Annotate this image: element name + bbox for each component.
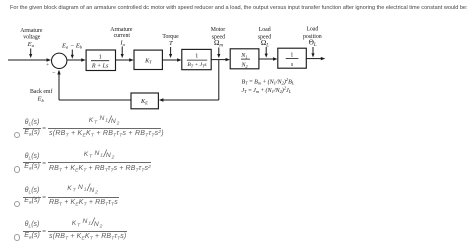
svg-text:JT = Jm + (N1/N2)2JL: JT = Jm + (N1/N2)2JL [242,86,292,95]
svg-text:Load: Load [259,27,271,33]
arrow Wm label [218,48,220,56]
svg-text:N1: N1 [240,53,247,59]
svg-text:−: − [52,71,56,77]
option 4 [14,234,20,240]
feedback wire horizontal left [59,99,131,101]
arrow Ea-Eb label [71,50,73,55]
arrowhead Ia down [121,54,124,58]
arrowhead up into summer [57,70,60,75]
svg-text:R + Ls: R + Ls [91,63,109,69]
svg-text:Ia: Ia [119,39,125,46]
wire KT to block3 [162,59,178,61]
wire N1N2 to 1/s [259,58,275,60]
svg-text:T: T [169,40,174,47]
arrowhead output [321,57,326,60]
svg-text:Back emf: Back emf [30,88,52,95]
svg-text:current: current [114,33,131,39]
arrowhead into summer [47,58,52,61]
block KE [131,93,158,109]
arrowhead WL down [265,54,268,58]
block KT [134,50,162,69]
arrowhead ThetaL down [311,53,314,57]
summing junction [52,53,67,68]
arrowhead into block1 [81,58,86,61]
arrowhead into N1N2 [226,58,231,61]
block 1/(R+Ls) [86,50,115,71]
svg-text:Ea: Ea [27,41,35,48]
arrowhead into 1/s [273,57,278,60]
block 1/s [278,48,307,68]
wire input [8,59,48,61]
arrowhead into KE (left) [159,98,164,101]
arrowhead Ea-Eb down [71,55,74,59]
arrowhead Wm down [217,54,220,58]
svg-text:1: 1 [195,54,198,60]
option 3 [14,201,20,207]
svg-text:Ea − Eb: Ea − Eb [61,42,83,49]
wire sum to block1 [67,59,82,61]
svg-text:Eb: Eb [36,95,44,102]
feedback wire vertical up [58,73,60,101]
svg-text:Armature: Armature [110,27,133,33]
feedback tap vertical [218,60,220,100]
option 2 [14,166,20,172]
arrow ThetaL label [312,47,314,54]
svg-text:1: 1 [99,55,102,61]
arrowhead into KT [129,58,134,61]
block N1/N2 [230,49,259,69]
arrow Ia label [121,47,123,56]
svg-text:Armature: Armature [20,28,43,34]
svg-text:1: 1 [290,52,293,58]
arrowhead Ea down [29,54,32,58]
svg-text:Motor: Motor [211,27,226,33]
wire block3 to N1N2 [211,59,227,61]
wire block1 to KT [116,59,131,61]
svg-text:BT = Bm + (N1/N2)2BL: BT = Bm + (N1/N2)2BL [242,77,295,86]
arrowhead T down [169,54,172,58]
option 1 [14,132,20,138]
arrow T label [170,47,172,55]
arrowhead into block3 [177,58,182,61]
feedback wire horizontal right [163,99,219,101]
arrow Ea label [30,49,32,56]
arrow WL label [265,47,267,55]
svg-text:N2: N2 [241,63,248,69]
question text [10,5,468,11]
svg-text:Load: Load [306,27,318,33]
wire output [306,58,321,60]
svg-text:voltage: voltage [23,34,40,40]
svg-text:+: + [46,62,49,68]
block 1/(BT+JTs) [182,49,211,69]
svg-text:BT + JTs: BT + JTs [187,62,206,68]
